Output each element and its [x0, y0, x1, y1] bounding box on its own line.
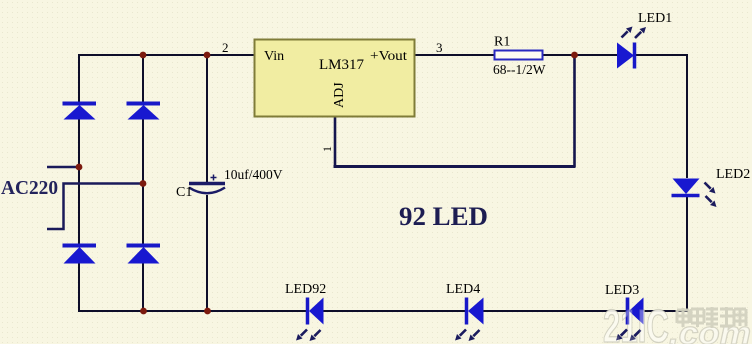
wire: LED2 cathode down right side: [643, 196, 687, 311]
svg-text:Vin: Vin: [264, 49, 284, 64]
diode D1 top-left of bridge: [63, 104, 97, 120]
LED LED1: [617, 27, 646, 69]
node: junction top bus x=207: [204, 52, 211, 59]
wire: top bus from bridge to LM317 Vin: [79, 54, 254, 56]
LED LED92: [296, 298, 324, 342]
wire: AC220 top terminal stub: [47, 166, 79, 169]
LED LED2: [672, 179, 717, 208]
LED LED3 arrows repaint over watermark: [616, 330, 641, 342]
svg-text:LED4: LED4: [446, 282, 480, 297]
LED LED3 symbol repaint over watermark: [628, 298, 644, 325]
svg-text:ADJ: ADJ: [332, 82, 347, 108]
wire: LED4 to LED92 bottom run: [323, 310, 466, 312]
svg-text:3: 3: [436, 40, 443, 55]
watermark 21IC.com: [603, 300, 751, 344]
svg-text:1: 1: [320, 146, 334, 152]
wire: R1 to node A: [543, 54, 617, 56]
svg-text:92 LED: 92 LED: [399, 202, 488, 231]
node: junction top bus x=143: [140, 52, 147, 59]
op-amp U1 LM317 regulator body: [255, 40, 415, 117]
wire: AC220 bottom terminal jog: [47, 184, 143, 230]
svg-text:C1: C1: [176, 185, 192, 200]
svg-text:LED92: LED92: [285, 282, 326, 297]
wire: second bridge leg: [142, 55, 144, 311]
svg-text:68--1/2W: 68--1/2W: [493, 62, 546, 77]
svg-text:AC220: AC220: [1, 177, 58, 199]
svg-text:2: 2: [222, 40, 229, 55]
svg-text:10uf/400V: 10uf/400V: [224, 167, 283, 182]
capacitor C1: [189, 175, 225, 194]
diode D3 bottom-left of bridge: [63, 246, 97, 264]
svg-text:LM317: LM317: [319, 57, 365, 73]
node: bottom bus x=143: [140, 308, 147, 315]
node: bottom bus x=207: [204, 308, 211, 315]
wire: LM317 Vout to R1: [414, 54, 495, 56]
diode D4 bottom-right of bridge: [127, 246, 161, 264]
LED LED3: [616, 298, 644, 342]
svg-text:+Vout: +Vout: [370, 49, 407, 64]
wire: ADJ net pin1 to node A: [335, 55, 575, 168]
wire: LED1 cathode to top-right corner: [635, 55, 687, 178]
wire: C1 leg: [206, 55, 208, 311]
svg-text:LED1: LED1: [638, 11, 672, 26]
node: AC bottom terminal junction: [140, 180, 147, 187]
LED LED4: [455, 298, 484, 342]
node A: R1/ADJ/LED1 junction: [571, 52, 578, 59]
wire: LED3 to LED4 bottom run: [483, 310, 627, 312]
svg-text:LED2: LED2: [716, 167, 750, 182]
svg-text:R1: R1: [494, 35, 510, 50]
wire: left bridge leg: [78, 54, 80, 312]
resistor R1: [495, 51, 543, 60]
wire: LED92 to bridge negative bottom run: [79, 310, 307, 312]
svg-text:LED3: LED3: [605, 283, 639, 298]
diode D2 top-right of bridge: [127, 104, 161, 120]
node: AC top terminal junction: [76, 164, 83, 171]
